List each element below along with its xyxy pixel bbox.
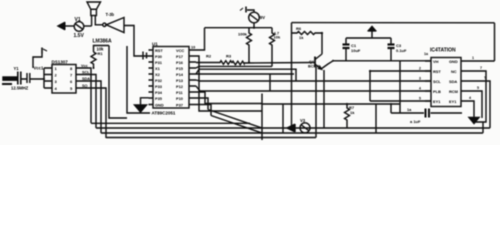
- wire collector: [321, 33, 323, 54]
- svg-text:10k: 10k: [274, 35, 281, 40]
- svg-text:1k: 1k: [350, 110, 355, 115]
- wire P37 drop: [196, 105, 211, 116]
- wire emitter up: [321, 61, 333, 69]
- resistor R4: [247, 28, 252, 63]
- U1 right pin stubs: [189, 50, 196, 105]
- transistor Q1: [315, 54, 322, 69]
- capacitor C4: [391, 109, 462, 118]
- svg-text:7: 7: [70, 73, 73, 78]
- bus rail 1: [96, 127, 490, 129]
- svg-text:P31: P31: [155, 60, 163, 65]
- wire: [323, 70, 325, 128]
- wire node: [261, 94, 263, 141]
- U1 left pin stubs: [149, 50, 154, 105]
- wire: [482, 122, 484, 133]
- wire: [390, 104, 392, 113]
- svg-text:EY1: EY1: [433, 99, 441, 104]
- pin number labels IC4: [424, 52, 487, 100]
- svg-text:RST: RST: [433, 69, 441, 74]
- top rail: [292, 22, 495, 24]
- svg-text:0.1uF: 0.1uF: [396, 48, 407, 53]
- svg-text:4: 4: [469, 96, 471, 100]
- microphone jack J1: [58, 22, 65, 30]
- svg-text:RST: RST: [155, 48, 163, 53]
- node junctions: [43, 27, 392, 106]
- svg-text:P16: P16: [176, 60, 184, 65]
- resistor R3 series: [232, 61, 315, 65]
- pin labels U1 right: [176, 48, 184, 108]
- wire loop: [127, 46, 150, 113]
- ground U1: [135, 98, 149, 112]
- svg-text:12.5MHZ: 12.5MHZ: [11, 86, 29, 91]
- resistor R1 10k: [91, 46, 109, 69]
- pin ticks IC4 left: [419, 67, 421, 101]
- wire: [91, 16, 93, 27]
- wire: [109, 46, 127, 119]
- capacitor C3: [388, 38, 395, 61]
- wire: [375, 104, 377, 133]
- svg-text:P37: P37: [176, 103, 183, 108]
- battery V2: [240, 7, 259, 28]
- svg-text:EY1: EY1: [449, 99, 457, 104]
- svg-text:a 1uF: a 1uF: [410, 119, 421, 124]
- power VCC arrow: [368, 27, 376, 39]
- supply rail: [205, 27, 273, 29]
- wire: [262, 103, 400, 105]
- svg-text:Vcc: Vcc: [81, 64, 88, 68]
- svg-text:-9V: -9V: [259, 15, 266, 20]
- svg-text:IC4TATION: IC4TATION: [430, 48, 456, 54]
- bus rail 3: [106, 137, 316, 139]
- svg-text:P33: P33: [155, 84, 163, 89]
- svg-text:10uF: 10uF: [351, 48, 361, 53]
- svg-text:P13: P13: [176, 78, 184, 83]
- speaker LS1: [87, 2, 101, 16]
- wire diagonal: [211, 116, 262, 134]
- svg-text:PLB: PLB: [433, 89, 441, 94]
- resistor R6: [292, 32, 323, 35]
- svg-text:P10: P10: [176, 96, 183, 101]
- svg-text:R3: R3: [226, 54, 232, 59]
- wire U2 right pins: [76, 68, 106, 138]
- wire: [282, 104, 284, 133]
- wire loop left: [91, 122, 250, 124]
- wire P12 drop: [196, 92, 262, 104]
- wire row1 IC4: [333, 60, 431, 62]
- wire emitter: [315, 67, 317, 138]
- svg-text:SDA: SDA: [82, 77, 90, 81]
- crystal Y1: [18, 72, 21, 85]
- svg-text:GND: GND: [155, 103, 164, 108]
- svg-text:3: 3: [55, 79, 58, 84]
- wire P14 row: [196, 73, 294, 75]
- svg-text:P32: P32: [155, 78, 163, 83]
- svg-text:4: 4: [55, 86, 58, 91]
- resistor R2 series: [196, 61, 232, 65]
- capacitor C6: [27, 73, 30, 83]
- svg-text:Vcc1: Vcc1: [34, 66, 44, 71]
- wire P15 row: [196, 66, 272, 68]
- wire P11 drop: [196, 98, 208, 110]
- resistor R5: [270, 28, 275, 67]
- wire staircase: [196, 69, 296, 81]
- svg-text:5: 5: [419, 97, 421, 101]
- svg-text:R1: R1: [98, 51, 104, 56]
- wire VCC U1: [196, 28, 205, 50]
- source V1: [74, 22, 84, 32]
- svg-text:Q1: Q1: [309, 60, 314, 64]
- svg-text:P17: P17: [176, 54, 183, 59]
- svg-text:R2: R2: [206, 54, 212, 59]
- svg-text:U1: U1: [152, 42, 158, 47]
- wire right edge: [494, 23, 496, 61]
- svg-text:8: 8: [70, 66, 73, 71]
- svg-text:NC: NC: [451, 69, 457, 74]
- svg-text:5: 5: [477, 86, 479, 90]
- wire feed pins: [44, 68, 52, 88]
- svg-text:1: 1: [472, 56, 474, 60]
- svg-text:1.5V: 1.5V: [74, 33, 85, 39]
- svg-text:100k: 100k: [238, 32, 248, 37]
- svg-text:VCC: VCC: [176, 48, 184, 53]
- wire: [17, 78, 45, 80]
- svg-text:SCL: SCL: [82, 71, 90, 75]
- svg-text:P35: P35: [155, 96, 163, 101]
- svg-text:R6: R6: [296, 26, 302, 31]
- resistor R7: [345, 104, 350, 128]
- wire cap bottom rail: [399, 61, 401, 113]
- wire: [65, 25, 74, 27]
- wire NC row: [370, 70, 431, 72]
- wire: [84, 25, 92, 27]
- svg-text:SCL: SCL: [433, 79, 441, 84]
- wire vert: [369, 71, 371, 101]
- svg-text:DS1307: DS1307: [52, 60, 69, 65]
- cap rail top: [346, 37, 391, 39]
- IC DS1307 U2: [52, 65, 76, 94]
- svg-text:P14: P14: [176, 72, 184, 77]
- bus rail 2: [101, 132, 483, 134]
- power Vcc1: [33, 48, 47, 69]
- svg-text:2: 2: [419, 67, 421, 71]
- svg-text:P34: P34: [155, 90, 163, 95]
- svg-text:RCM: RCM: [449, 89, 458, 94]
- svg-text:BC548: BC548: [308, 65, 320, 69]
- wire vert join: [269, 74, 271, 91]
- wire diagonal: [208, 110, 262, 129]
- wire EY row: [370, 100, 431, 102]
- svg-text:1: 1: [55, 66, 58, 71]
- svg-text:Y1: Y1: [14, 66, 20, 71]
- svg-text:5: 5: [70, 86, 73, 91]
- capacitor C1: [343, 38, 350, 61]
- svg-text:1k: 1k: [299, 35, 304, 40]
- svg-text:SDA: SDA: [449, 79, 457, 84]
- svg-text:P30: P30: [155, 54, 162, 59]
- svg-text:1a: 1a: [424, 52, 429, 56]
- pin labels U1 left: [155, 48, 164, 108]
- svg-text:SQ: SQ: [82, 84, 88, 88]
- svg-text:GND: GND: [449, 59, 458, 64]
- IC4 right stubs and wires: [461, 61, 495, 128]
- svg-text:LM386A: LM386A: [93, 39, 113, 45]
- svg-text:1a: 1a: [407, 108, 412, 112]
- wire SDA long: [196, 80, 431, 81]
- wire left edge: [291, 23, 293, 126]
- svg-text:3: 3: [419, 77, 421, 81]
- svg-text:P15: P15: [176, 66, 184, 71]
- svg-text:V1: V1: [75, 17, 81, 23]
- svg-text:X1: X1: [155, 66, 161, 71]
- IC4 box: [431, 58, 461, 107]
- svg-text:6: 6: [70, 79, 73, 84]
- pin numbers U2: [55, 66, 74, 91]
- svg-text:VH: VH: [433, 59, 439, 64]
- svg-text:P12: P12: [176, 84, 184, 89]
- svg-text:V3: V3: [300, 118, 306, 123]
- wire: [95, 16, 102, 25]
- ground IC4: [469, 118, 479, 124]
- wire SCL long: [196, 86, 431, 91]
- svg-text:X2: X2: [155, 72, 161, 77]
- op-amp U3 LM386: [103, 18, 124, 33]
- svg-text:10: 10: [191, 46, 195, 50]
- capacitor C5: [143, 52, 147, 60]
- IC4 left stubs: [425, 61, 431, 101]
- svg-text:4: 4: [419, 87, 421, 91]
- svg-text:T-3b: T-3b: [106, 12, 115, 17]
- svg-text:P11: P11: [176, 90, 184, 95]
- svg-text:7: 7: [480, 66, 482, 70]
- wire P30 drop: [196, 56, 262, 111]
- connector J2: [2, 77, 17, 84]
- svg-text:AT89C2051: AT89C2051: [152, 111, 176, 116]
- pin labels IC4: [433, 59, 458, 104]
- svg-text:2: 2: [55, 73, 58, 78]
- IC U1 AT89C2051: [153, 47, 189, 109]
- microphone V3: [287, 123, 310, 133]
- wire amp output: [124, 26, 149, 57]
